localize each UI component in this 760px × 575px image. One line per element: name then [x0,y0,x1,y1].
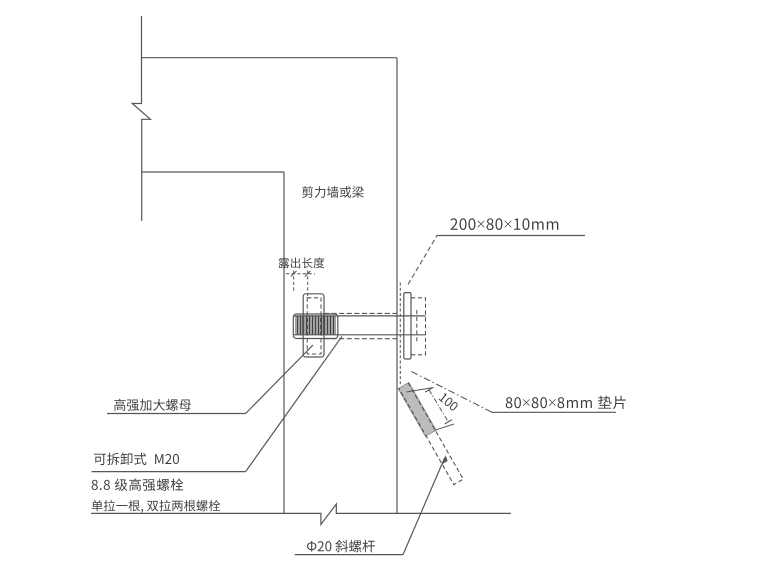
leader inclined-bolt underline [295,554,403,556]
extension line (100) lower [435,424,455,430]
wall right face [396,58,398,514]
leader bolt diagonal [246,336,342,471]
bearing plate 200x80x10 [404,293,411,359]
label 高强加大螺母 [114,399,191,411]
beam soffit line [142,171,285,173]
bolt shaft top edge [294,315,426,317]
dimension line (exposed length) [286,273,315,275]
nut thread hatching [296,316,335,334]
label 露出长度 [279,257,325,268]
leader nut diagonal [246,345,313,414]
dimension text 100 [438,392,458,411]
extension line right [307,271,309,299]
leader nut underline [107,413,246,415]
label 200×80×10mm [450,218,558,230]
anchor plate vertical body [303,294,324,357]
label 8.8级高强螺栓 [92,478,184,491]
label 可拆卸式 [94,453,146,465]
hidden bolt end line [416,310,418,342]
hidden wall-face line [399,283,401,386]
bolt shaft bottom edge [294,334,426,336]
hidden washer outline [411,298,426,355]
wall inner face [283,172,285,513]
leader 200x80x10 underline [437,235,586,237]
label Φ20 斜螺杆 [307,540,375,552]
leader washer diagonal [412,372,493,413]
dimension tick lower [445,420,452,424]
hidden sleeve hole top edge [324,312,398,314]
ground section line with break symbol [91,504,511,525]
extension line left [293,271,295,293]
extension line (100) upper [406,388,433,393]
leader arrowhead [442,455,448,464]
label 单拉一根,双拉两根螺栓 [92,500,221,513]
label 剪力墙或梁 [302,186,364,198]
grouted washer segment (grey) [398,382,436,436]
dimension tick right [305,271,311,277]
leader 200x80x10 diagonal [408,236,437,285]
oversized nut body [293,314,338,339]
dimension tick upper [425,388,432,392]
wall outer face with break symbol [132,16,150,221]
hidden sleeve hole bottom edge [324,338,398,340]
dimension tick left [291,271,297,277]
beam top edge [142,57,398,59]
leader bolt underline [92,471,246,473]
label 80×80×8mm 垫片 [506,396,626,409]
leader washer underline [492,411,617,413]
anchor plate hidden edges [307,298,321,354]
dimension line (100) [429,390,448,422]
leader inclined-bolt diagonal [403,458,445,555]
label M20 [155,454,179,464]
hidden inclined bolt outline [399,383,463,485]
